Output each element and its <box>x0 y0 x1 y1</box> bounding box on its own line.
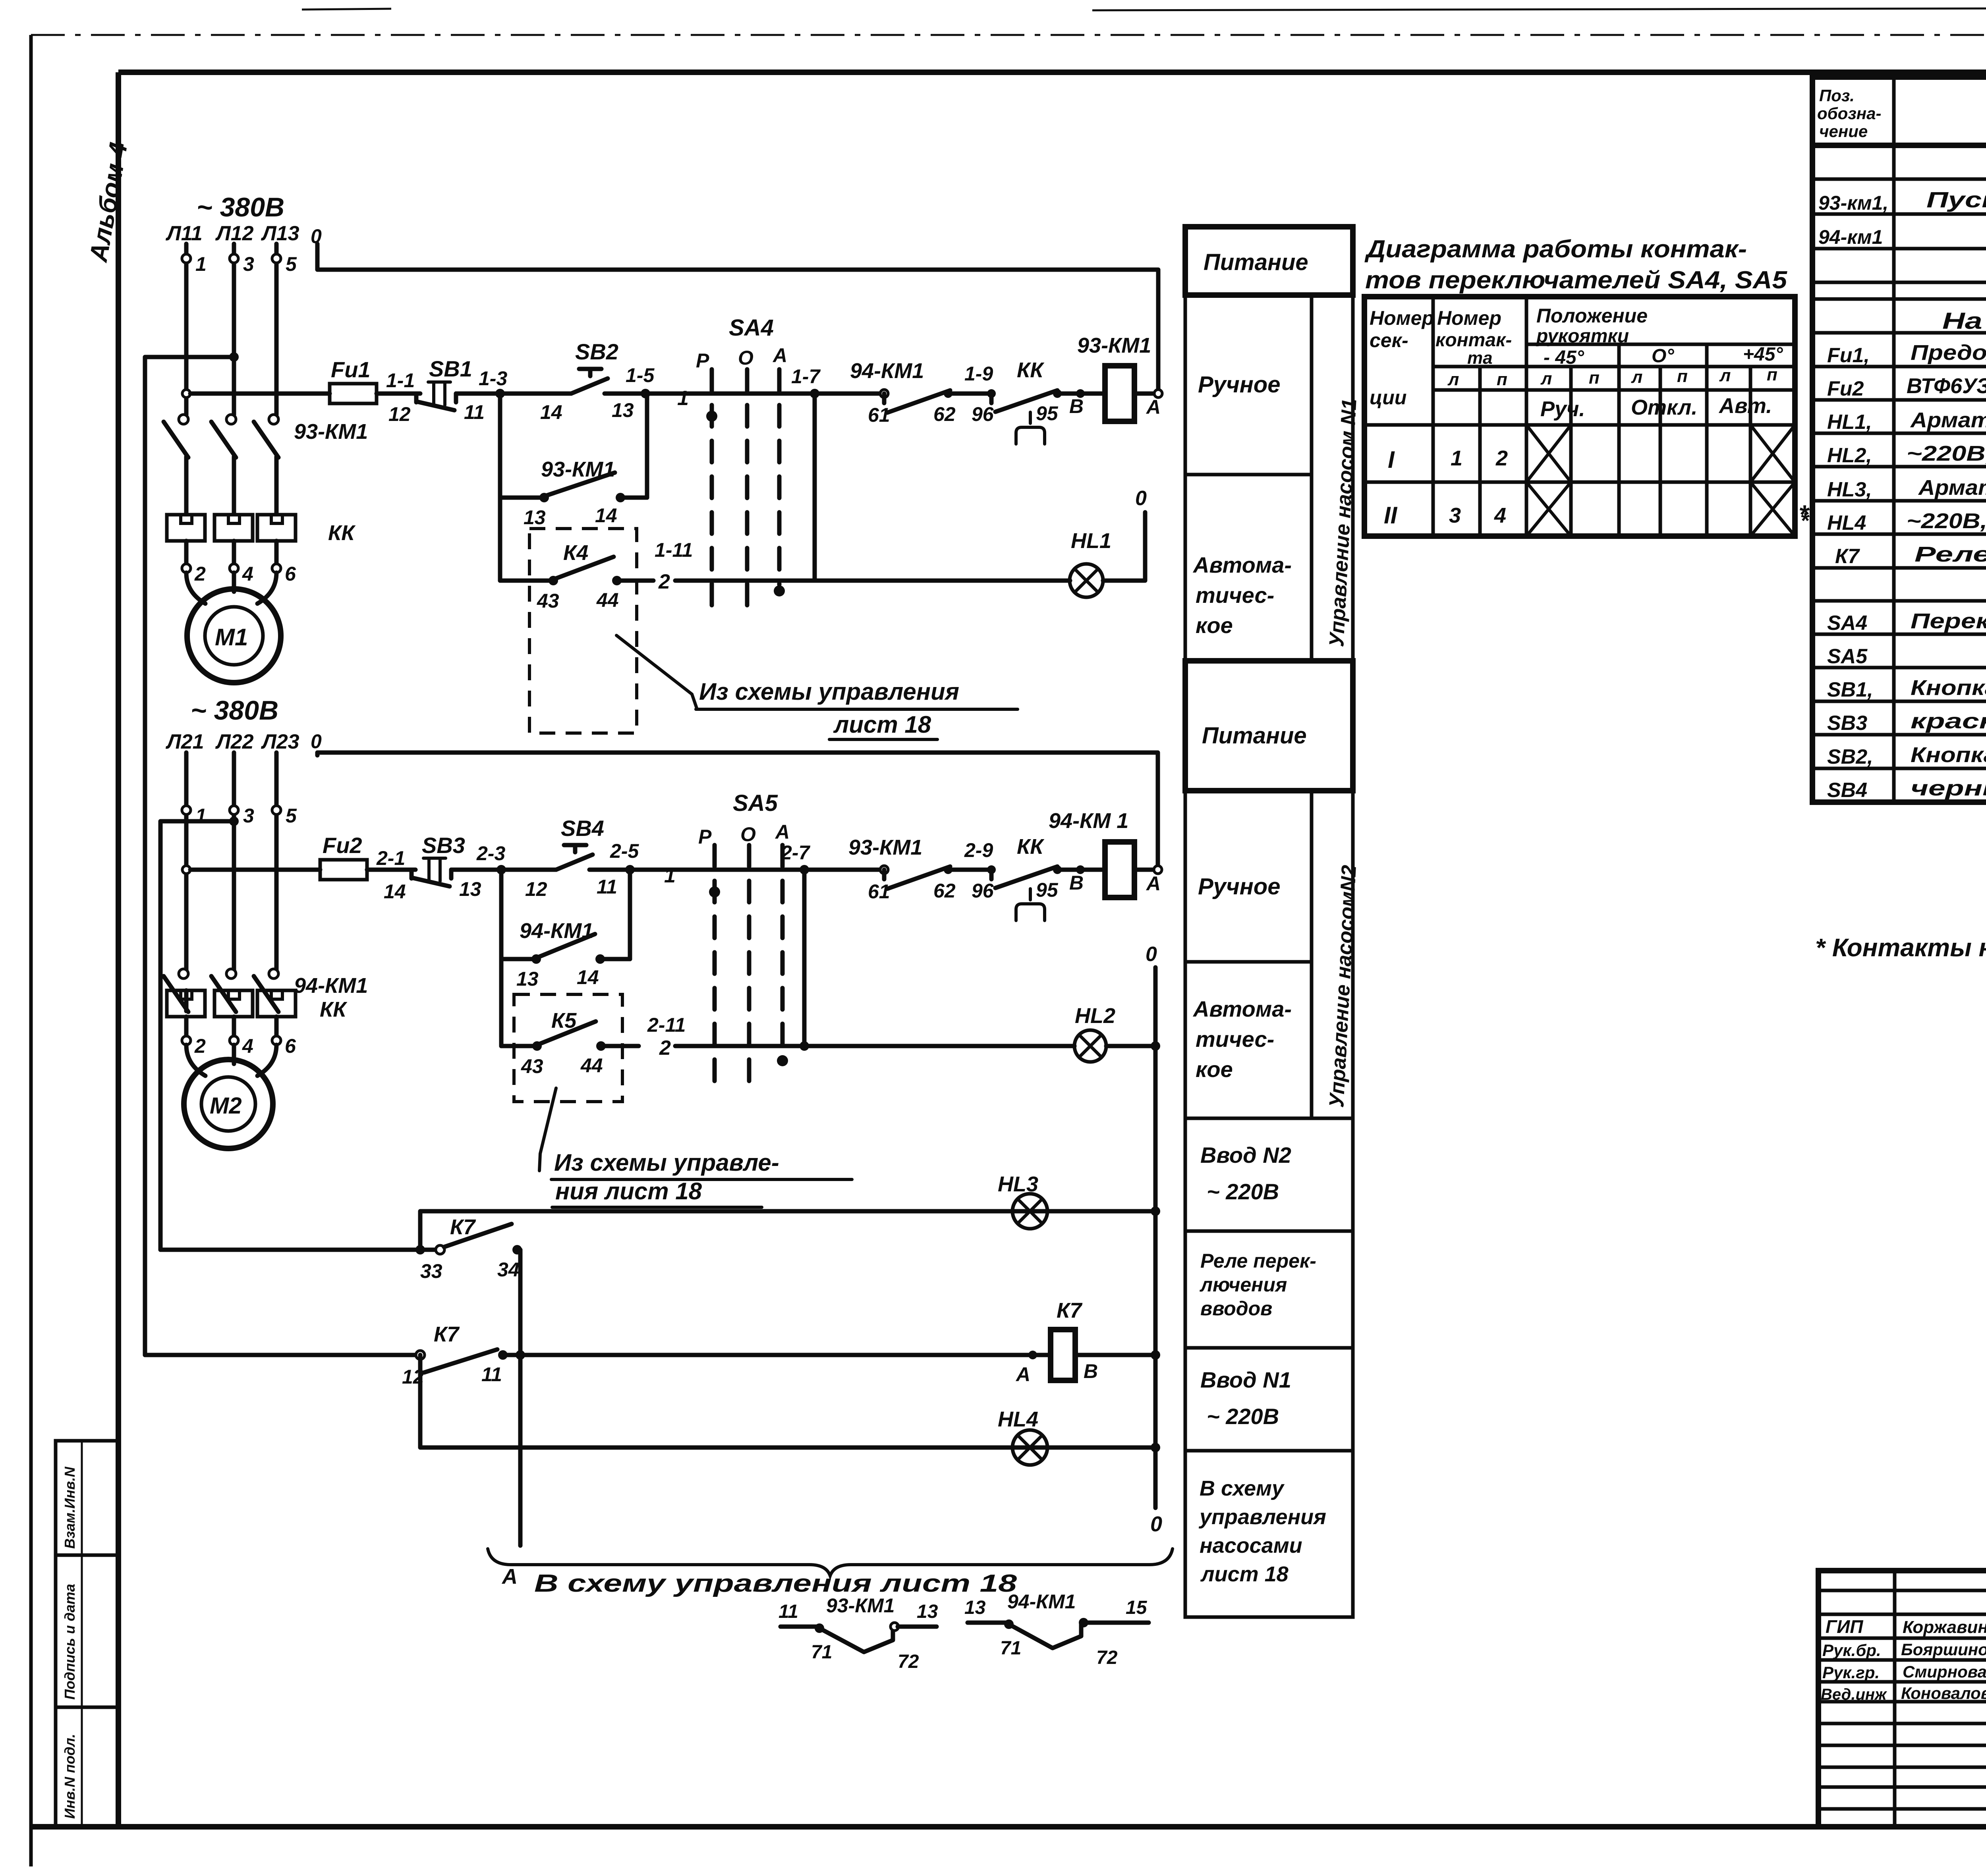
svg-text:К4: К4 <box>563 541 588 565</box>
svg-text:Кнопка КЕ011УЗ, исп5, толкател: Кнопка КЕ011УЗ, исп5, толкатель <box>1911 676 1986 700</box>
parts row HL1 <box>1827 408 1986 434</box>
svg-text:л: л <box>1631 367 1642 387</box>
svg-text:Рук.гр.: Рук.гр. <box>1822 1663 1880 1682</box>
parts row На щите <box>1942 308 1986 334</box>
svg-text:II: II <box>1384 502 1398 529</box>
svg-text:6: 6 <box>285 563 296 585</box>
contactor coil 93-KM1 <box>1077 334 1161 421</box>
wire to KK contact <box>948 363 993 394</box>
contactor 93-KM1 main pole 3 <box>254 415 278 514</box>
svg-text:95: 95 <box>1036 879 1059 901</box>
svg-text:14: 14 <box>595 504 617 527</box>
lamp HL3 <box>998 1172 1047 1229</box>
node L11 label <box>165 222 203 245</box>
wire HL4 row <box>420 1355 1155 1448</box>
svg-text:14: 14 <box>577 966 599 988</box>
svg-text:Реле перек-: Реле перек- <box>1200 1250 1316 1272</box>
wire coil row to K7 coil <box>503 1351 1051 1359</box>
svg-text:О°: О° <box>1652 345 1674 367</box>
svg-text:обозна-: обозна- <box>1817 104 1881 123</box>
drawing frame left <box>116 72 121 1827</box>
svg-text:SВ4: SВ4 <box>1827 779 1867 802</box>
svg-text:62: 62 <box>933 880 956 902</box>
motor M1 leads <box>186 573 276 604</box>
svg-text:SВ3: SВ3 <box>1827 712 1867 735</box>
parts row SB2 <box>1827 743 1986 768</box>
svg-text:чение: чение <box>1819 122 1868 141</box>
svg-text:94-КМ1: 94-КМ1 <box>294 974 368 998</box>
svg-text:SВ1,: SВ1, <box>1827 678 1873 701</box>
box В схему управления насосами лист 18 <box>1185 1451 1353 1617</box>
svg-text:Автома-: Автома- <box>1192 552 1292 577</box>
svg-text:Подпись и дата: Подпись и дата <box>62 1584 78 1700</box>
scan artifact top edge line <box>302 6 1986 10</box>
svg-text:черный, ТУ16 - 642.015 -84: черный, ТУ16 - 642.015 -84 <box>1911 776 1986 800</box>
svg-text:72: 72 <box>1096 1647 1118 1668</box>
diagram row II <box>1384 502 1506 529</box>
svg-text:93-КМ1: 93-КМ1 <box>848 836 922 859</box>
svg-text:Авт.: Авт. <box>1718 394 1772 418</box>
svg-text:94-КМ1: 94-КМ1 <box>1007 1590 1076 1613</box>
node 2-7 <box>780 841 810 874</box>
parts table grid <box>1812 77 1986 802</box>
svg-text:Ручное: Ручное <box>1198 874 1280 899</box>
svg-text:5: 5 <box>286 805 297 827</box>
svg-text:93-КМ1: 93-КМ1 <box>1077 334 1151 357</box>
svg-text:1-7: 1-7 <box>791 365 821 388</box>
svg-text:13: 13 <box>459 878 481 900</box>
dashed box K5 (external contact) <box>514 994 622 1102</box>
node 1-3 <box>479 367 507 398</box>
svg-text:4: 4 <box>242 563 253 585</box>
wire KK to coil <box>1057 389 1105 398</box>
terminal 5 <box>272 253 297 275</box>
svg-text:В схему управления лист 18: В схему управления лист 18 <box>534 1570 1017 1597</box>
svg-text:А: А <box>501 1565 518 1588</box>
svg-text:1: 1 <box>664 864 676 887</box>
svg-text:14: 14 <box>540 401 562 423</box>
svg-text:л: л <box>1719 366 1731 385</box>
NC contact 93-KM1 (61-62) c2 <box>848 836 956 903</box>
page border top (dash-dot) <box>31 34 1986 36</box>
wire control row2 left segment <box>190 868 320 872</box>
box Реле переключения вводов <box>1185 1231 1353 1348</box>
contactor 94-KM1 main pole 2 <box>211 969 236 1012</box>
svg-text:93-КМ1: 93-КМ1 <box>294 420 368 444</box>
svg-text:43: 43 <box>521 1055 543 1077</box>
svg-text:Fu1,: Fu1, <box>1827 344 1870 367</box>
wire row1 node1-5 to SA4 area <box>645 387 815 410</box>
svg-text:Положение: Положение <box>1536 305 1648 327</box>
svg-text:лист 18: лист 18 <box>833 711 931 738</box>
svg-text:~ 220В: ~ 220В <box>1207 1179 1279 1204</box>
svg-text:л: л <box>1540 369 1552 388</box>
svg-text:О: О <box>738 347 753 369</box>
svg-text:В: В <box>1069 872 1084 894</box>
svg-text:0: 0 <box>1150 1512 1162 1536</box>
svg-text:61: 61 <box>868 404 890 426</box>
X mark row I -45 л <box>1526 425 1571 482</box>
left margin stamp table <box>56 1441 118 1827</box>
svg-text:5: 5 <box>286 253 297 275</box>
wire 0 bus circuit1 <box>317 244 1158 394</box>
X mark row II +45 п <box>1750 482 1795 536</box>
svg-text:2-7: 2-7 <box>780 841 810 864</box>
svg-text:11: 11 <box>481 1363 502 1386</box>
svg-text:КК: КК <box>1017 358 1045 382</box>
svg-text:Бояршинов: Бояршинов <box>1901 1640 1986 1659</box>
svg-text:2: 2 <box>194 1035 206 1057</box>
wire coil to right vertical <box>1075 1350 1160 1360</box>
svg-text:п: п <box>1767 365 1777 384</box>
svg-text:Коновалов: Коновалов <box>1901 1684 1986 1702</box>
svg-text:Переключатель УП5311-С225УЗ: Переключатель УП5311-С225УЗ <box>1911 609 1986 633</box>
label 94-KM1 main contacts <box>294 974 368 998</box>
signature ГИП Коржавина <box>1826 1616 1986 1637</box>
parts row HL4 <box>1800 508 1986 535</box>
wire tap input1 to K7 coil row <box>145 352 239 1355</box>
svg-text:4: 4 <box>242 1035 253 1057</box>
wire coil to corner c2 <box>1134 866 1162 874</box>
svg-text:72: 72 <box>898 1651 919 1672</box>
box Питание 2 <box>1185 661 1353 791</box>
wire row2 node2-3 to SB4 <box>501 868 556 872</box>
svg-text:лист 18: лист 18 <box>1200 1562 1289 1586</box>
svg-text:Л22: Л22 <box>215 730 254 753</box>
svg-text:красный, ТУ16-642.015-84: красный, ТУ16-642.015-84 <box>1911 709 1986 733</box>
title block outer box <box>1818 1571 1986 1827</box>
svg-text:~220В, зеленый, ТУ16-535.681-7: ~220В, зеленый, ТУ16-535.681-76 <box>1907 442 1986 465</box>
svg-text:Реле ПЭ-37-22-УЗ, ~ 220В: Реле ПЭ-37-22-УЗ, ~ 220В <box>1915 542 1986 566</box>
X mark row I +45 п <box>1750 425 1795 482</box>
svg-text:тичес-: тичес- <box>1196 1027 1274 1052</box>
parts row Fu1 <box>1827 341 1986 367</box>
svg-text:Откл.: Откл. <box>1631 396 1697 419</box>
wire contact 34 down to coil row and A stub <box>501 1250 525 1588</box>
thermal overload KK heater 1 <box>167 515 205 541</box>
wire row1 node1-7 to contact 94-KM1 <box>815 392 884 396</box>
svg-text:В: В <box>1069 395 1084 417</box>
node 1-5 <box>626 364 655 398</box>
svg-text:ГИП: ГИП <box>1826 1616 1863 1637</box>
wire coil to corner <box>1134 390 1162 398</box>
svg-text:КК: КК <box>1017 835 1045 859</box>
svg-text:61: 61 <box>868 880 890 903</box>
signature Рук.гр Смирнова <box>1822 1662 1986 1682</box>
contactor 93-KM1 main pole 1 <box>164 415 188 514</box>
svg-text:4: 4 <box>1494 504 1506 527</box>
node L21 label <box>165 730 204 753</box>
parts row K7 <box>1835 542 1986 568</box>
svg-text:3: 3 <box>243 805 254 827</box>
svg-text:94-КМ1: 94-КМ1 <box>850 359 924 383</box>
thermal overload KK heater 3 <box>257 515 296 541</box>
SA4 position labels P O A <box>696 344 787 372</box>
terminal 2 c2 <box>182 1035 206 1057</box>
SA5 position labels P O A <box>698 821 790 848</box>
svg-text:Fu2: Fu2 <box>323 833 362 858</box>
wire heater to terminal pole2 c2 <box>232 1017 236 1036</box>
contactor 93-KM1 main pole 2 <box>211 415 236 514</box>
svg-text:НL1,: НL1, <box>1827 411 1872 434</box>
wire phase L11 upper <box>184 244 189 415</box>
svg-text:К7: К7 <box>1057 1299 1083 1322</box>
box Ручное 1 <box>1185 295 1312 475</box>
self-hold contact 93-KM1 (13-14) <box>500 394 647 529</box>
svg-text:SB1: SB1 <box>429 356 472 381</box>
parts row SA5 <box>1827 643 1986 668</box>
svg-text:л: л <box>1447 370 1459 389</box>
svg-text:0: 0 <box>1135 487 1147 510</box>
wire node2-3 down to row 2-11 <box>499 959 504 1046</box>
control row 1: connection at L11 <box>182 390 190 398</box>
thermal overload KK heater 1 c2 <box>167 990 205 1017</box>
label KK heaters circuit2 <box>320 998 348 1021</box>
svg-text:сек-: сек- <box>1370 329 1408 351</box>
svg-text:93-км1,: 93-км1, <box>1818 192 1888 214</box>
svg-text:SВ2,: SВ2, <box>1827 745 1873 768</box>
wire row2 node2-5 to SA5 area <box>630 864 804 887</box>
svg-text:Ввод N2: Ввод N2 <box>1200 1143 1291 1168</box>
svg-text:96: 96 <box>972 880 994 902</box>
label 2 row2 <box>658 570 670 593</box>
node 2-3 <box>476 842 506 874</box>
NC thermal contact KK (96-95) <box>972 358 1084 444</box>
svg-text:2: 2 <box>658 570 670 593</box>
drawing frame top <box>118 69 1986 75</box>
box Ввод N1 220В <box>1185 1348 1353 1451</box>
node L12 label <box>215 222 254 245</box>
wire phase L23 upper <box>274 753 279 970</box>
svg-text:SB4: SB4 <box>561 816 604 841</box>
label ~380V circuit1 <box>197 192 284 222</box>
svg-text:93-КМ1: 93-КМ1 <box>541 457 615 481</box>
svg-text:Кнопка КЕ011УЗ, исп.4, толкате: Кнопка КЕ011УЗ, исп.4, толкатель <box>1911 743 1986 767</box>
svg-text:Автома-: Автома- <box>1192 996 1292 1021</box>
parts row SB3 <box>1827 709 1986 735</box>
diagram header Номер контакта <box>1435 307 1512 368</box>
label ~380V circuit2 <box>191 695 278 726</box>
svg-text:Р: Р <box>696 349 709 372</box>
wire heater to terminal pole1 c2 <box>184 1017 189 1036</box>
svg-text:~ 220В: ~ 220В <box>1207 1404 1279 1429</box>
svg-text:71: 71 <box>1000 1638 1021 1659</box>
svg-text:11: 11 <box>779 1601 798 1622</box>
svg-text:Питание: Питание <box>1204 249 1308 275</box>
svg-text:Л21: Л21 <box>165 730 204 753</box>
svg-text:1-3: 1-3 <box>479 367 507 390</box>
svg-text:1-11: 1-11 <box>655 539 693 561</box>
wire heater to terminal pole3 <box>274 541 279 564</box>
svg-text:96: 96 <box>972 403 994 425</box>
svg-text:кое: кое <box>1196 1057 1233 1082</box>
NC contact 94-KM1 (61-62) <box>850 359 956 426</box>
svg-text:НL4: НL4 <box>1827 511 1866 535</box>
diagram row I <box>1388 446 1508 473</box>
svg-text:тов переключателей SА4, SА5: тов переключателей SА4, SА5 <box>1365 266 1788 294</box>
box Автоматическое 1 <box>1185 475 1312 661</box>
parts row SB4 <box>1827 776 1986 802</box>
svg-text:Коржавина: Коржавина <box>1903 1617 1986 1637</box>
node 2-5 <box>610 840 639 874</box>
svg-text:15: 15 <box>1126 1597 1148 1618</box>
wire heater to terminal pole1 <box>184 541 189 564</box>
svg-text:ции: ции <box>1370 386 1406 409</box>
svg-text:SА5: SА5 <box>1827 645 1868 668</box>
svg-text:Арматура светосигнальная АСЛ11: Арматура светосигнальная АСЛ11У2 <box>1910 408 1986 432</box>
SA5 dashed line P <box>709 845 720 1083</box>
wire node1-7 down to row2 <box>813 394 817 581</box>
svg-text:Смирнова: Смирнова <box>1903 1662 1986 1681</box>
svg-text:1-9: 1-9 <box>964 363 993 385</box>
rotated note Альбом 4 <box>84 140 133 264</box>
fuse FU2 <box>320 833 415 880</box>
pushbutton SB4 (NO) <box>525 816 630 900</box>
relay coil K7 <box>1015 1299 1098 1386</box>
parts header <box>1817 86 1986 141</box>
svg-text:А: А <box>1015 1363 1030 1386</box>
parts row Fu2 <box>1827 374 1986 400</box>
diagram table grid <box>1364 297 1795 536</box>
node 1-7 <box>791 365 821 398</box>
svg-text:62: 62 <box>933 403 956 425</box>
svg-text:1-1: 1-1 <box>386 369 415 392</box>
contactor 94-KM1 main pole 3 <box>254 969 278 1012</box>
note Из схемы управления лист 18 c2 <box>551 1149 852 1207</box>
svg-text:* Контакты не используются.: * Контакты не используются. <box>1815 933 1986 962</box>
svg-text:п: п <box>1589 368 1600 388</box>
svg-text:0: 0 <box>1146 943 1157 966</box>
SA5 dashed line O <box>747 845 752 1095</box>
parts row SB1 <box>1827 676 1986 701</box>
svg-text:33: 33 <box>420 1260 442 1282</box>
terminal 6 c2 <box>272 1035 296 1057</box>
svg-text:43: 43 <box>537 590 559 612</box>
svg-text:+45°: +45° <box>1743 344 1783 365</box>
svg-text:КК: КК <box>320 998 348 1021</box>
svg-text:0: 0 <box>311 730 322 753</box>
wire row1 node1-3 to SB2 <box>500 392 571 396</box>
node 0 label circuit1 <box>311 225 322 247</box>
svg-text:- 45°: - 45° <box>1544 347 1584 368</box>
terminal 4 c2 <box>230 1035 253 1057</box>
wire right 0 vertical <box>1150 967 1162 1536</box>
svg-text:лючения: лючения <box>1200 1274 1287 1296</box>
thermal overload KK heater 2 c2 <box>214 990 253 1017</box>
svg-text:34: 34 <box>497 1258 520 1281</box>
external contact 94-KM1 (13-15/71-72) <box>964 1590 1149 1668</box>
wire node2-7 down to row 2-11 <box>802 870 807 1046</box>
svg-text:Рук.бр.: Рук.бр. <box>1822 1641 1881 1660</box>
svg-text:Ручное: Ручное <box>1198 372 1280 398</box>
wire HL3 feed row <box>420 1211 1155 1248</box>
node L22 label <box>215 730 254 753</box>
terminal 5 c2 <box>272 805 297 827</box>
wire heater to terminal pole3 c2 <box>274 1017 279 1036</box>
svg-text:~ 380В: ~ 380В <box>197 192 284 222</box>
thermal overload KK heater 2 <box>214 515 253 541</box>
svg-text:6: 6 <box>285 1035 296 1057</box>
wire HL1 to 0 stub <box>1103 487 1147 581</box>
dashed box K4 (external contact) <box>529 529 637 733</box>
wire control row1 left segment <box>190 392 330 396</box>
svg-text:Л13: Л13 <box>261 222 299 245</box>
svg-text:контак-: контак- <box>1435 330 1512 351</box>
terminal 6 <box>272 563 296 585</box>
lamp HL4 <box>998 1407 1047 1465</box>
svg-text:2-1: 2-1 <box>376 847 405 869</box>
svg-text:SB2: SB2 <box>575 339 618 364</box>
label 1-11 <box>655 539 693 561</box>
fuse FU1 <box>330 357 420 403</box>
svg-text:К7: К7 <box>1835 545 1860 568</box>
svg-text:1: 1 <box>1451 446 1462 470</box>
label KK heaters circuit1 <box>328 521 356 545</box>
svg-text:Диаграмма работы контак-: Диаграмма работы контак- <box>1364 235 1747 263</box>
wire heater to terminal pole2 <box>232 541 236 564</box>
pushbutton SB1 (NC) <box>388 356 496 425</box>
control row 2: connection at L21 <box>182 866 190 874</box>
svg-text:11: 11 <box>597 876 617 898</box>
svg-text:кое: кое <box>1196 613 1233 638</box>
svg-text:SA5: SA5 <box>733 790 778 816</box>
svg-text:2: 2 <box>1495 446 1508 470</box>
svg-text:94-КМ 1: 94-КМ 1 <box>1049 809 1128 833</box>
thermal overload KK heater 3 c2 <box>257 990 296 1017</box>
wire to KK contact c2 <box>948 839 993 870</box>
svg-text:94-КМ1: 94-КМ1 <box>520 919 593 943</box>
contact K7 (12-11) <box>402 1322 508 1388</box>
svg-text:Предохранитель ППТ-10УЗ,пл.вс: Предохранитель ППТ-10УЗ,пл.вст. <box>1911 341 1986 365</box>
svg-text:Вед.инж: Вед.инж <box>1821 1686 1887 1703</box>
svg-text:94-км1: 94-км1 <box>1818 226 1883 248</box>
lamp HL1 <box>1070 529 1111 597</box>
svg-text:НL3,: НL3, <box>1827 478 1872 501</box>
svg-text:Взам.Инв.N: Взам.Инв.N <box>62 1467 78 1549</box>
diagram header Номер секции <box>1370 307 1434 409</box>
page border bottom <box>31 1824 1986 1830</box>
svg-text:Инв.N подл.: Инв.N подл. <box>62 1734 78 1819</box>
terminal 4 <box>230 563 253 585</box>
SA5 dashed line A <box>777 845 788 1066</box>
svg-text:3: 3 <box>243 253 254 275</box>
wire K7 row 12 left <box>145 1353 416 1357</box>
svg-text:О: О <box>740 823 756 845</box>
wire phase L12 upper <box>232 244 236 415</box>
signature Рук.бр Бояршинов <box>1822 1640 1986 1660</box>
margin stamp text Взам. инв. № <box>62 1467 78 1549</box>
strip Управление насосом N2 <box>1312 791 1361 1118</box>
switch SA5 label <box>733 790 778 816</box>
svg-text:К7: К7 <box>450 1215 476 1239</box>
parts row 93-km1 <box>1818 187 1986 214</box>
svg-text:Л23: Л23 <box>261 730 299 753</box>
svg-text:2-5: 2-5 <box>610 840 639 862</box>
svg-text:К5: К5 <box>551 1009 577 1033</box>
svg-text:44: 44 <box>596 589 619 611</box>
svg-text:НL4: НL4 <box>998 1407 1038 1431</box>
svg-text:2-3: 2-3 <box>476 842 505 865</box>
svg-text:2: 2 <box>659 1036 671 1060</box>
margin stamp text Инв. № подл. <box>62 1734 78 1819</box>
motor M2 <box>184 1060 273 1148</box>
SA4 dashed line O <box>745 369 750 620</box>
svg-text:1-5: 1-5 <box>626 364 655 386</box>
svg-text:3: 3 <box>1449 504 1461 527</box>
svg-text:КК: КК <box>328 521 356 545</box>
svg-text:~220В, оранжевый, ТУ16-535.681: ~220В, оранжевый, ТУ16-535.681-76 <box>1907 509 1986 533</box>
wire row2 to HL1 <box>675 579 1070 583</box>
